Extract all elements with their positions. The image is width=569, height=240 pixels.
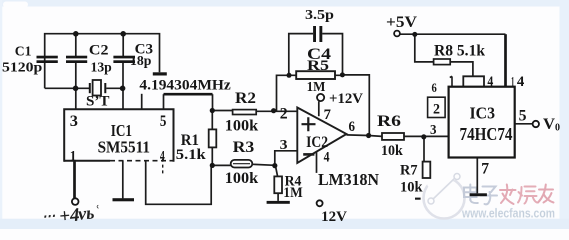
svg-text:1M: 1M xyxy=(283,185,302,201)
svg-text:100k: 100k xyxy=(225,170,258,187)
svg-text:4: 4 xyxy=(487,74,493,90)
svg-text:100k: 100k xyxy=(225,117,258,134)
svg-text:2: 2 xyxy=(433,102,440,118)
svg-text:⋯: ⋯ xyxy=(42,208,57,224)
svg-text:7: 7 xyxy=(324,107,332,123)
svg-text:3: 3 xyxy=(430,123,437,138)
svg-text:13p: 13p xyxy=(91,60,112,75)
svg-text:12V: 12V xyxy=(321,209,347,225)
svg-text:IC2: IC2 xyxy=(306,134,328,151)
svg-text:6: 6 xyxy=(432,80,438,95)
svg-text:10k: 10k xyxy=(400,180,423,196)
svg-text:+12V: +12V xyxy=(329,91,363,107)
svg-text:4: 4 xyxy=(324,150,330,166)
svg-text:1: 1 xyxy=(70,149,77,165)
svg-text:R8 5.1k: R8 5.1k xyxy=(434,43,485,60)
svg-text:74HC74: 74HC74 xyxy=(460,124,513,144)
svg-text:3: 3 xyxy=(280,138,288,153)
svg-text:0: 0 xyxy=(555,123,560,134)
svg-text:4: 4 xyxy=(160,149,165,165)
svg-text:V: V xyxy=(543,116,555,133)
svg-text:10k: 10k xyxy=(381,143,403,159)
svg-text:5: 5 xyxy=(160,113,167,130)
svg-text:4.194304MHz: 4.194304MHz xyxy=(139,77,231,93)
svg-text:3.5p: 3.5p xyxy=(305,8,334,23)
svg-text:R3: R3 xyxy=(233,139,255,156)
svg-text:LM318N: LM318N xyxy=(318,170,379,189)
svg-text:2: 2 xyxy=(280,106,288,123)
svg-text:+5V: +5V xyxy=(386,14,417,31)
svg-text:R2: R2 xyxy=(235,90,256,107)
svg-text:R6: R6 xyxy=(377,113,401,130)
svg-text:S’T: S’T xyxy=(86,94,110,110)
svg-text:1M: 1M xyxy=(307,80,326,95)
svg-text:5120p: 5120p xyxy=(2,60,43,75)
svg-text:C2: C2 xyxy=(89,42,109,58)
svg-text:νьʿ: νьʿ xyxy=(77,202,101,224)
svg-text:R7: R7 xyxy=(400,163,418,179)
svg-text:C1: C1 xyxy=(15,45,32,60)
svg-text:4: 4 xyxy=(517,74,525,90)
svg-text:5.1k: 5.1k xyxy=(176,147,207,163)
svg-text:IC3: IC3 xyxy=(470,104,496,123)
svg-text:www.elecfans.com: www.elecfans.com xyxy=(461,206,555,221)
svg-text:6: 6 xyxy=(349,119,356,135)
svg-text:5: 5 xyxy=(519,107,527,124)
svg-text:7: 7 xyxy=(481,160,489,177)
svg-text:3: 3 xyxy=(70,113,78,130)
svg-text:1: 1 xyxy=(511,74,514,90)
svg-text:R5: R5 xyxy=(307,58,329,74)
svg-text:18p: 18p xyxy=(130,54,152,69)
svg-text:SM5511: SM5511 xyxy=(98,138,150,157)
